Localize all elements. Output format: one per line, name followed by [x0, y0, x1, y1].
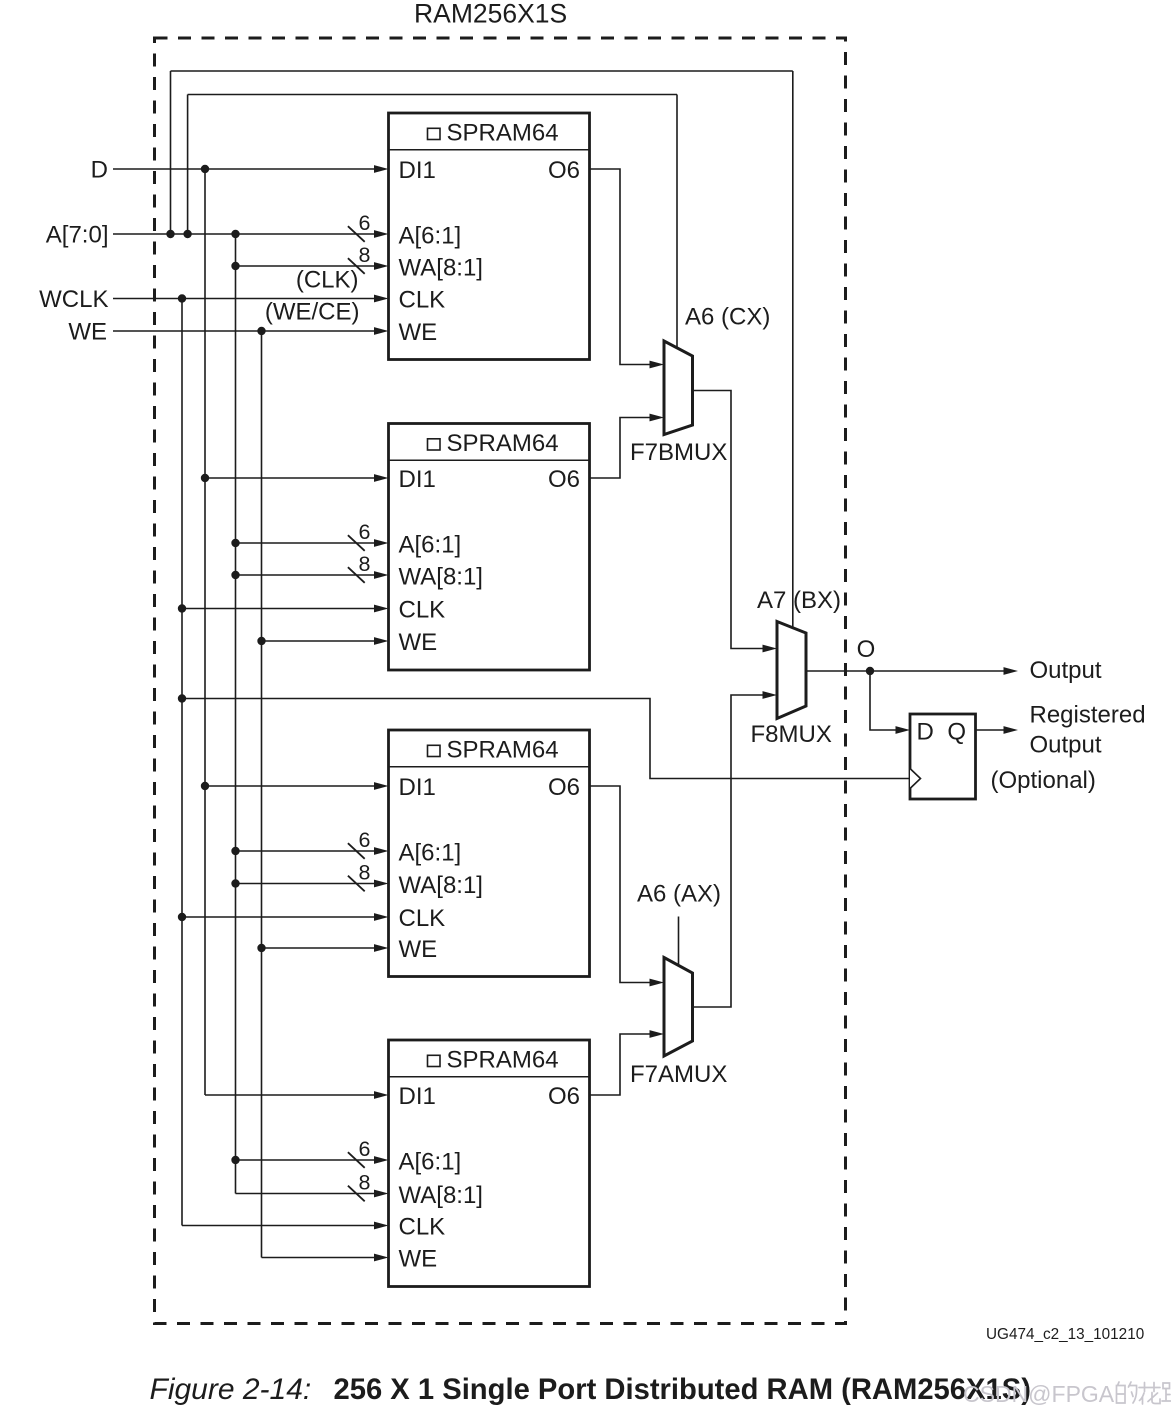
- wire CLK branch block4: [182, 1222, 389, 1230]
- watermark CSDN@FPGA: [963, 1381, 1115, 1407]
- svg-text:6: 6: [359, 520, 371, 544]
- wire WA branch block3: [236, 876, 389, 892]
- junction dot 11: [178, 604, 186, 612]
- svg-text:F7AMUX: F7AMUX: [630, 1061, 727, 1088]
- svg-text:8: 8: [359, 861, 371, 885]
- svg-text:CLK: CLK: [399, 287, 446, 314]
- node A[7:0] input label: [46, 222, 109, 249]
- dashed boundary box RAM256X1S: [155, 38, 846, 1324]
- svg-text:CLK: CLK: [399, 1214, 446, 1241]
- svg-text:DI1: DI1: [399, 466, 436, 493]
- wire D input: [113, 165, 389, 173]
- junction dot 16: [178, 913, 186, 921]
- svg-text:O6: O6: [548, 774, 580, 801]
- junction dot O: [866, 667, 874, 675]
- svg-text:A6 (CX): A6 (CX): [685, 304, 770, 331]
- watermark glyph de: [1117, 1382, 1137, 1403]
- wire F8MUX select vertical A7: [792, 71, 794, 628]
- wire WE branch block2: [262, 637, 389, 645]
- bus width 6 label block4: [359, 1137, 371, 1161]
- wire WCLK input: [113, 295, 389, 303]
- header separator U2: [389, 459, 590, 461]
- SPRAM64 block U1: [389, 113, 590, 360]
- svg-text:A[6:1]: A[6:1]: [399, 840, 462, 867]
- svg-text:6: 6: [359, 1137, 371, 1161]
- svg-text:WE: WE: [399, 319, 438, 346]
- label Output: [1030, 657, 1102, 684]
- header square U4: [428, 1055, 441, 1066]
- svg-text:WE: WE: [399, 936, 438, 963]
- svg-text:SPRAM64: SPRAM64: [447, 119, 559, 146]
- header separator U3: [389, 766, 590, 768]
- SPRAM64 block U4: [389, 1040, 590, 1287]
- wire CLK branch block3: [182, 913, 389, 921]
- junction dot 10: [231, 571, 239, 579]
- svg-text:O: O: [857, 636, 876, 663]
- wire D trunk vertical: [204, 169, 206, 1095]
- wire O6 block1 to F7BMUX input0: [590, 169, 665, 368]
- junction dot 7: [257, 327, 265, 335]
- svg-text:Output: Output: [1030, 732, 1102, 759]
- svg-text:(WE/CE): (WE/CE): [265, 299, 360, 326]
- svg-text:F8MUX: F8MUX: [751, 721, 832, 748]
- header square U3: [428, 745, 441, 756]
- svg-text:Registered: Registered: [1030, 702, 1146, 729]
- svg-text:RAM256X1S: RAM256X1S: [414, 0, 567, 29]
- svg-text:DI1: DI1: [399, 1083, 436, 1110]
- mux F7BMUX: [664, 341, 693, 435]
- bus width 8 label block1: [359, 243, 371, 267]
- mux F7AMUX: [664, 958, 693, 1057]
- label F7AMUX: [630, 1061, 727, 1088]
- wire A trunk vertical: [235, 234, 237, 1194]
- junction dot 17: [257, 944, 265, 952]
- junction dot 2: [183, 230, 191, 238]
- wire O6 block2 to F7BMUX input1: [590, 414, 665, 478]
- junction dot 5: [231, 262, 239, 270]
- wire WA branch block4: [236, 1186, 389, 1202]
- svg-text:CLK: CLK: [399, 597, 446, 624]
- header square U1: [428, 128, 441, 139]
- junction dot 13: [201, 782, 209, 790]
- junction dot 12: [257, 637, 265, 645]
- mux F8MUX: [777, 622, 806, 719]
- svg-text:Output: Output: [1030, 657, 1102, 684]
- svg-text:O6: O6: [548, 157, 580, 184]
- junction dot 8: [201, 474, 209, 482]
- title RAM256X1S: [414, 0, 567, 29]
- junction dot 3: [231, 230, 239, 238]
- svg-text:A[6:1]: A[6:1]: [399, 1149, 462, 1176]
- wire A branch block2: [236, 535, 389, 551]
- svg-text:WE: WE: [399, 629, 438, 656]
- label A6 (AX): [637, 881, 721, 908]
- svg-text:8: 8: [359, 1171, 371, 1195]
- svg-text:6: 6: [359, 828, 371, 852]
- label (WE/CE): [265, 299, 360, 326]
- SPRAM64 block U3: [389, 730, 590, 977]
- wire O to register D input: [870, 671, 910, 734]
- svg-text:UG474_c2_13_101210: UG474_c2_13_101210: [986, 1326, 1144, 1343]
- label (Optional): [991, 767, 1096, 794]
- svg-text:O6: O6: [548, 466, 580, 493]
- svg-text:(CLK): (CLK): [296, 267, 359, 294]
- svg-text:F7BMUX: F7BMUX: [630, 439, 727, 466]
- svg-text:(Optional): (Optional): [991, 767, 1096, 794]
- wire DI1 branch block3: [205, 782, 389, 790]
- svg-text:SPRAM64: SPRAM64: [447, 736, 559, 763]
- wire A[7:0] input: [113, 226, 389, 242]
- header separator U4: [389, 1076, 590, 1078]
- junction dot 19: [178, 694, 186, 702]
- wire O6 block3 to F7AMUX input0: [590, 786, 665, 986]
- wire DI1 branch block2: [205, 474, 389, 482]
- svg-text:Q: Q: [947, 719, 966, 746]
- wire CLK branch block2: [182, 605, 389, 613]
- svg-text:A[6:1]: A[6:1]: [399, 532, 462, 559]
- label (CLK): [296, 267, 359, 294]
- svg-text:WA[8:1]: WA[8:1]: [399, 255, 483, 282]
- svg-text:SPRAM64: SPRAM64: [447, 1046, 559, 1073]
- label A6 (CX): [685, 304, 770, 331]
- svg-text:WA[8:1]: WA[8:1]: [399, 872, 483, 899]
- header square U2: [428, 439, 441, 450]
- junction dot 9: [231, 539, 239, 547]
- svg-text:A6 (AX): A6 (AX): [637, 881, 721, 908]
- bus width 8 label block2: [359, 552, 371, 576]
- svg-text:DI1: DI1: [399, 774, 436, 801]
- watermark glyph lu: [1162, 1383, 1171, 1404]
- wire WE branch block4: [262, 1254, 389, 1262]
- svg-text:WA[8:1]: WA[8:1]: [399, 1182, 483, 1209]
- wire register clock from WCLK: [182, 699, 910, 779]
- svg-text:A[6:1]: A[6:1]: [399, 223, 462, 250]
- wire WA branch block1: [236, 258, 389, 274]
- svg-text:CSDN@FPGA: CSDN@FPGA: [963, 1381, 1115, 1407]
- svg-text:WE: WE: [399, 1246, 438, 1273]
- bus width 8 label block3: [359, 861, 371, 885]
- header separator U1: [389, 149, 590, 151]
- wire WCLK trunk vertical: [181, 299, 183, 1226]
- svg-text:Figure 2-14:: Figure 2-14:: [150, 1373, 312, 1406]
- wire register Q output: [976, 726, 1019, 734]
- wire A6CX feedback left vertical: [187, 95, 189, 235]
- wire F7AMUX output to F8MUX input1: [693, 691, 778, 1007]
- junction dot 15: [231, 879, 239, 887]
- bus width 6 label block3: [359, 828, 371, 852]
- wire F7BMUX output to F8MUX input0: [693, 391, 778, 653]
- label Registered Output: [1030, 702, 1146, 759]
- junction dot 18: [231, 1156, 239, 1164]
- junction dot 14: [231, 847, 239, 855]
- watermark glyph hua: [1139, 1383, 1160, 1405]
- junction dot 6: [178, 294, 186, 302]
- wire A branch block3: [236, 843, 389, 859]
- svg-text:256 X 1 Single Port Distribute: 256 X 1 Single Port Distributed RAM (RAM…: [334, 1374, 1031, 1406]
- wire F8MUX output O: [806, 667, 1018, 675]
- wire F7BMUX select vertical A6: [676, 95, 678, 349]
- wire F7AMUX select stub: [678, 917, 680, 967]
- svg-text:DI1: DI1: [399, 157, 436, 184]
- svg-text:WA[8:1]: WA[8:1]: [399, 564, 483, 591]
- svg-text:SPRAM64: SPRAM64: [447, 430, 559, 457]
- wire A7 feedback left vertical: [170, 71, 172, 234]
- label F7BMUX: [630, 439, 727, 466]
- svg-text:O6: O6: [548, 1083, 580, 1110]
- svg-text:WCLK: WCLK: [39, 286, 108, 313]
- bus width 6 label block1: [359, 211, 371, 235]
- svg-text:8: 8: [359, 243, 371, 267]
- svg-text:WE: WE: [68, 319, 107, 346]
- svg-text:A7 (BX): A7 (BX): [757, 587, 841, 614]
- wire WE input: [113, 327, 389, 335]
- wire DI1 branch block4: [205, 1091, 389, 1099]
- svg-text:A[7:0]: A[7:0]: [46, 222, 109, 249]
- label A7 (BX): [757, 587, 841, 614]
- wire A branch block4: [236, 1152, 389, 1168]
- svg-text:D: D: [917, 719, 934, 746]
- node WCLK input label: [39, 286, 108, 313]
- wire WA branch block2: [236, 567, 389, 583]
- wire WE branch block3: [262, 944, 389, 952]
- wire WE trunk vertical: [261, 331, 263, 1258]
- caption Figure 2-14: [150, 1373, 1031, 1406]
- node WE input label: [68, 319, 107, 346]
- svg-text:D: D: [91, 157, 108, 184]
- wire O6 block4 to F7AMUX input1: [590, 1030, 665, 1095]
- node O label: [857, 636, 876, 663]
- label F8MUX: [751, 721, 832, 748]
- wire A7 feedback top horizontal: [171, 70, 793, 72]
- bus width 6 label block2: [359, 520, 371, 544]
- svg-text:CLK: CLK: [399, 905, 446, 932]
- svg-text:6: 6: [359, 211, 371, 235]
- register clock chevron: [910, 769, 921, 789]
- node D input label: [91, 157, 108, 184]
- register FDRE D flip-flop: [910, 714, 976, 799]
- junction dot 4: [201, 165, 209, 173]
- SPRAM64 block U2: [389, 424, 590, 671]
- junction dot 1: [166, 230, 174, 238]
- doc number UG474_c2_13_101210: [986, 1326, 1144, 1343]
- bus width 8 label block4: [359, 1171, 371, 1195]
- wire A6CX feedback top horizontal: [188, 94, 677, 96]
- svg-text:8: 8: [359, 552, 371, 576]
